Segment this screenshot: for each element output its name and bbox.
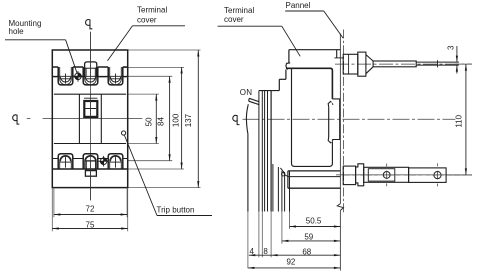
escutcheon dome arc: [246, 104, 248, 134]
handle window top line: [84, 97, 97, 99]
extension line y160.7 (84 bottom): [128, 160, 173, 162]
panel solid line: [339, 34, 341, 204]
cover latch nib (top): [286, 63, 290, 70]
centerline solid extensions: [455, 63, 472, 65]
terminal screw 2 (top): [85, 77, 97, 82]
case side profile: [292, 68, 333, 166]
dim 50.5: [290, 217, 341, 228]
vertical centerline: [90, 32, 92, 201]
centerline symbol (front left): [13, 115, 20, 124]
top front step profile: [259, 70, 286, 91]
cover plate rectangle: [54, 94, 126, 143]
toggle lever (ON position): [249, 98, 260, 104]
top step tabs: [52, 66, 127, 68]
svg-text:110: 110: [454, 114, 463, 127]
svg-text:Terminal: Terminal: [224, 6, 254, 15]
label Trip button: [125, 136, 213, 216]
upper terminal centerline: [335, 63, 472, 65]
dim 100: [171, 67, 182, 169]
upper terminal block: [343, 54, 358, 74]
dim 59: [282, 233, 341, 242]
bottom bolt: [85, 161, 96, 200]
top slot 3 outer: [108, 67, 123, 85]
terminal hole 1: [383, 164, 390, 187]
centerline symbol (front top): [86, 20, 93, 29]
top slot 1 outer: [58, 67, 73, 85]
back flush section against panel: [332, 99, 339, 140]
svg-text:137: 137: [184, 113, 193, 127]
svg-text:75: 75: [86, 220, 95, 229]
back cover plate with latch hooks: [328, 101, 333, 142]
horizontal centerline: [27, 118, 31, 120]
body top face line y76.3: [52, 75, 127, 77]
dim 92: [248, 257, 341, 269]
bottom step line: [52, 168, 127, 170]
handle: [84, 101, 97, 117]
dim 110: [454, 64, 467, 175]
mounting hole (bottom): [99, 156, 109, 167]
lower terminal end bar: [409, 168, 447, 183]
case front face (68 extent): [270, 91, 272, 212]
svg-text:cover: cover: [137, 16, 157, 25]
terminal screw 3 (bottom): [110, 156, 122, 167]
mounting hole (top): [73, 71, 83, 82]
horizontal centerline: [243, 118, 456, 120]
panel break symbol: [337, 204, 343, 211]
top slot 2 inner U: [85, 67, 97, 85]
svg-text:Trip button: Trip button: [157, 205, 195, 214]
svg-text:84: 84: [157, 117, 166, 126]
lower terminal flange: [356, 164, 364, 186]
top slot 1 inner U: [60, 67, 72, 85]
lower terminal bar: [364, 167, 409, 182]
front face vertical (92 extent): [247, 134, 249, 211]
svg-text:3: 3: [446, 45, 455, 50]
dim 75: [52, 188, 127, 231]
terminal screw 1 (top): [60, 74, 72, 84]
top slot 2 outer: [83, 67, 98, 85]
extension line y76.8 (84): [128, 75, 173, 77]
panel center dash-dot line: [343, 30, 345, 214]
escutcheon verticals: [258, 91, 260, 212]
upper terminal rod: [373, 61, 416, 67]
body back outline (thick): [286, 68, 333, 99]
trip button: [122, 131, 126, 135]
bottom slot 2: [83, 154, 98, 169]
svg-text:ON: ON: [240, 88, 252, 97]
dim 50: [145, 94, 158, 143]
upper terminal taper: [366, 55, 373, 74]
bottom gap line y158.5: [52, 158, 127, 160]
label Terminal cover (front): [108, 5, 186, 60]
svg-text:hole: hole: [9, 27, 25, 36]
bottom slot 1: [58, 154, 73, 169]
extension line y169 (100 bottom): [128, 168, 184, 170]
svg-text:8: 8: [263, 247, 268, 256]
upper terminal strip (3mm): [416, 60, 459, 67]
dim 72: [54, 188, 127, 217]
body outline: [52, 50, 127, 188]
terminal hole 2: [434, 163, 441, 186]
lower front steps: [272, 164, 274, 212]
lower terminal clamp pad: [368, 169, 395, 181]
svg-text:92: 92: [286, 257, 295, 266]
extension line top (137): [128, 49, 201, 51]
centerline symbol (side left): [233, 115, 240, 124]
extension line y143.5 (50 bottom): [128, 143, 159, 145]
svg-text:4: 4: [249, 247, 254, 256]
label Pannel: [285, 1, 343, 38]
lower terminal block: [343, 166, 355, 185]
lower terminal centerline over bars: [344, 174, 472, 176]
upper terminal flange: [358, 52, 366, 76]
extension line y67 (100): [123, 67, 184, 69]
svg-text:68: 68: [302, 247, 311, 256]
svg-text:Terminal: Terminal: [137, 5, 167, 14]
svg-text:cover: cover: [224, 15, 244, 24]
svg-text:50.5: 50.5: [306, 217, 322, 226]
handle escutcheon bump: [85, 32, 97, 77]
svg-text:72: 72: [86, 205, 95, 214]
label Mounting hole: [5, 19, 77, 73]
dim 68 with 4 and 8: [249, 247, 341, 256]
dim 3: [446, 45, 458, 73]
cover latch hook (bottom): [280, 168, 288, 177]
extension line y94 (50): [128, 93, 159, 95]
lower terminal cover block: [288, 171, 341, 229]
svg-text:Pannel: Pannel: [286, 1, 311, 10]
label Terminal cover (side): [218, 6, 301, 56]
top slot 3 inner U: [110, 67, 122, 85]
dim 137: [184, 50, 199, 188]
svg-text:59: 59: [304, 233, 313, 242]
terminal screw 2 (bottom): [86, 156, 96, 161]
terminal screw 1 (bottom): [60, 156, 72, 167]
lower terminal centerline: [336, 174, 472, 176]
terminal cover (top block): [289, 50, 343, 63]
terminal screw 3 (top): [110, 74, 122, 84]
svg-text:100: 100: [171, 113, 180, 127]
dim 84: [157, 76, 171, 160]
extension line bottom (137 bottom): [128, 187, 201, 189]
bottom slot 3: [108, 154, 123, 169]
svg-text:50: 50: [145, 117, 154, 126]
